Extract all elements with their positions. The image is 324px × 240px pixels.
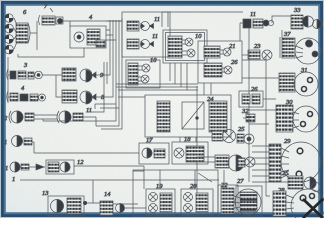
corner X mark — [303, 199, 323, 218]
wiper motor 33 — [291, 15, 322, 29]
headlamp connector strip — [14, 18, 30, 49]
box A bulb 1 — [182, 38, 193, 46]
gauge 30 — [276, 105, 319, 132]
drops from box B — [204, 83, 211, 95]
gauge 9 — [62, 68, 96, 82]
relay box 18 — [172, 142, 208, 164]
long wire 180 — [20, 173, 219, 203]
gauge 8 — [62, 90, 96, 104]
wiper feed wire — [272, 16, 291, 23]
drops from box A — [170, 63, 187, 90]
panel strip left — [157, 101, 170, 132]
left long wire — [8, 57, 10, 103]
switch panel box — [145, 95, 231, 137]
pump feed stubs — [160, 170, 224, 189]
instrument box A inner — [166, 33, 205, 61]
wire switch7 to coil — [63, 21, 122, 27]
wire to motor 25 — [252, 181, 288, 183]
marker lamp row — [10, 162, 29, 172]
headlamp circle 3 — [5, 35, 14, 44]
rear lamp cluster 28 — [273, 189, 324, 223]
wire below coil — [18, 48, 84, 57]
slashed box 24 — [182, 102, 204, 129]
speedometer 31 — [279, 72, 318, 96]
harness horizontals under box A — [116, 84, 198, 97]
fuel sender 27 box — [234, 186, 262, 216]
fuse strip 3 — [7, 69, 43, 80]
wire to wiper — [281, 30, 283, 38]
relay box 26 — [239, 91, 263, 107]
panel box B — [198, 41, 242, 83]
rear box outline — [133, 170, 218, 216]
pump 20 — [181, 189, 213, 215]
fan links to strips — [252, 146, 269, 176]
box B row1 bulb — [220, 48, 231, 56]
switch 11 top right — [243, 19, 274, 28]
wire lamp2R — [83, 117, 96, 126]
box B row2 strip — [204, 63, 222, 77]
wire strip3 to gauges — [42, 75, 62, 97]
headlamp circle 2 — [5, 24, 14, 33]
blower 37 — [280, 37, 321, 64]
headlamp circle 4 — [5, 45, 14, 54]
extra mid-left wires — [95, 104, 119, 109]
dome lamp 16 — [237, 134, 254, 144]
headlamp circle 1 — [5, 14, 13, 22]
harness vertical bundle — [43, 18, 122, 129]
box A connector strip — [168, 36, 182, 58]
long wire row — [74, 166, 144, 189]
relay box 17 — [139, 143, 169, 164]
lower strip 4 — [7, 91, 46, 102]
box B row1 strip — [204, 46, 220, 58]
ignition coil box — [70, 26, 106, 48]
cab lamp 1 — [127, 21, 154, 31]
junction blob — [83, 201, 87, 205]
box A bulb 2 — [182, 49, 195, 57]
lamp 25 hatch — [212, 131, 223, 141]
fog lamp 23 — [242, 50, 272, 60]
wire from strip to node — [30, 21, 37, 50]
front lamp 1 — [12, 136, 33, 147]
harness top links — [106, 21, 122, 40]
wire lamp2L-R pair — [34, 115, 57, 119]
main vertical harness — [196, 86, 198, 212]
box B row2 bulb — [222, 66, 232, 74]
right vertical wire 2 — [266, 56, 270, 196]
lamp 25 bulb — [223, 130, 236, 143]
switch 7 — [39, 15, 64, 25]
lamp box outline — [122, 12, 170, 57]
top wire run — [162, 12, 243, 27]
connector 22 strip — [218, 185, 238, 216]
panel drop stubs — [150, 137, 196, 143]
front lamp 2 left — [9, 111, 34, 123]
wire with arrow — [29, 164, 45, 170]
cab lamp 2 — [127, 39, 154, 49]
rear box top components — [197, 155, 244, 171]
links to right column — [242, 60, 279, 124]
front lamp 2 right — [57, 111, 83, 123]
switch 12 — [46, 160, 74, 174]
motor 25 — [288, 176, 321, 192]
lamp group 10 box — [126, 60, 160, 88]
wire lamp1 — [32, 142, 139, 153]
sensor 14 — [100, 201, 146, 215]
gauge unit 13 — [48, 196, 84, 216]
label 7 with arrow — [44, 3, 53, 12]
pump 19 — [146, 189, 175, 215]
switch 32 — [243, 114, 255, 122]
junction dot — [195, 116, 198, 119]
panel strip right — [209, 101, 227, 132]
plafond lamp — [238, 157, 255, 167]
rear lamp cluster 29 — [269, 142, 321, 182]
right vertical wire 1 — [248, 28, 250, 182]
instrument box A outer — [163, 30, 207, 63]
wire switch to box B — [240, 23, 243, 41]
